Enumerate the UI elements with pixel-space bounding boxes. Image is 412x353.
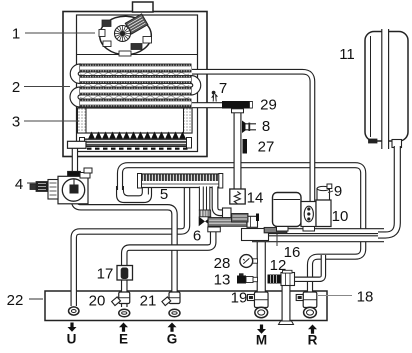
svg-text:M: M (256, 333, 267, 348)
vertical pipe from condensate bar 29 down to diverter (234, 106, 242, 192)
fitting 16 (264, 227, 287, 233)
connection oval M (255, 307, 268, 317)
svg-text:U: U (67, 332, 77, 347)
pipe through expansion vessel (382, 29, 389, 149)
svg-text:16: 16 (284, 244, 301, 261)
leader lines (24, 33, 352, 299)
burner flames (88, 132, 186, 140)
temperature sensor 13 (252, 277, 258, 281)
pressure gauge 28 (252, 259, 258, 263)
right branch elbow from plate HX (215, 187, 224, 213)
boiler outer case (63, 12, 207, 157)
expansion vessel 11 (365, 32, 408, 148)
block fitting (223, 208, 232, 219)
svg-text:3: 3 (12, 114, 20, 131)
coil left bend rows3-4 (70, 87, 80, 107)
connection oval G (169, 309, 180, 317)
collar under bowtie (208, 227, 221, 232)
spindle end nub (256, 214, 259, 222)
svg-text:22: 22 (7, 292, 24, 309)
E cold water inlet pipe (124, 228, 213, 307)
expansion vessel connection pipe (378, 146, 397, 235)
svg-text:5: 5 (160, 186, 168, 203)
air vent 9 (317, 184, 332, 200)
number labels (7, 26, 374, 310)
black bar 29 (222, 101, 253, 109)
drain outlet flare (279, 321, 294, 325)
bottom connection manifold 22 (45, 291, 327, 321)
igniter electrode 7 (212, 91, 218, 101)
svg-text:14: 14 (247, 190, 264, 207)
fan chamber divider (77, 54, 198, 56)
svg-text:R: R (308, 333, 318, 348)
svg-text:29: 29 (260, 97, 277, 114)
svg-text:17: 17 (97, 266, 114, 283)
svg-text:2: 2 (12, 79, 20, 96)
svg-text:8: 8 (262, 118, 270, 135)
burner rail (84, 139, 187, 147)
connection oval U (69, 307, 79, 315)
service valve 21 (169, 292, 180, 304)
svg-text:10: 10 (332, 208, 349, 225)
svg-text:20: 20 (89, 293, 106, 310)
coil left bend rows1-2 (70, 64, 80, 84)
connection letters (67, 332, 318, 348)
svg-text:18: 18 (357, 289, 374, 306)
flow pipe from heat exchanger to pump (192, 72, 312, 203)
coil right bend rows2-3 (191, 76, 201, 96)
junction elbow to M riser (242, 229, 269, 241)
safety valve discharge pipe (282, 283, 291, 322)
connection oval R (304, 307, 317, 317)
service valve 20 (119, 292, 130, 304)
coupler under 14 pipe (232, 214, 249, 223)
svg-text:9: 9 (334, 183, 342, 200)
svg-text:27: 27 (258, 139, 275, 156)
svg-text:13: 13 (214, 272, 231, 289)
service valve 18 (303, 292, 317, 308)
flow direction arrows (68, 323, 77, 332)
flange under bar 29 (232, 109, 244, 113)
sensor 27 (243, 139, 248, 154)
M central heating flow riser (257, 238, 266, 309)
diverter valve bowtie 6 (199, 217, 212, 227)
svg-text:7: 7 (219, 80, 227, 97)
collar above bowtie (199, 210, 210, 217)
gas valve 4 (30, 168, 92, 204)
svg-text:4: 4 (15, 176, 23, 193)
svg-text:1: 1 (12, 26, 20, 43)
svg-text:11: 11 (339, 46, 355, 63)
flow switch 14 (230, 189, 245, 204)
pipe from coil row4 to bar 29 (192, 102, 223, 108)
pump 10 (273, 193, 332, 232)
R central heating return pipe (120, 165, 363, 308)
connection oval E (119, 309, 130, 317)
injector dashes (87, 148, 188, 150)
hook pipe into plate exchanger (117, 186, 152, 203)
U domestic hot water outlet pipe (74, 185, 187, 306)
svg-text:G: G (167, 332, 178, 347)
plate heat exchanger 5 (139, 174, 221, 188)
svg-text:28: 28 (214, 255, 231, 272)
svg-text:21: 21 (140, 293, 157, 310)
fitting 8 (242, 121, 246, 134)
combustion chamber inner box (77, 15, 198, 152)
flue collar (133, 2, 154, 12)
gas pipe from valve to G connection (74, 198, 175, 293)
fan assembly 1 (99, 14, 152, 56)
pump suction manifold pipe (double-walled) (252, 229, 384, 242)
filter 17 (117, 266, 133, 281)
burner box 3 (78, 108, 193, 133)
double-wall pipe plate HX to diverter (199, 187, 209, 211)
safety valve 12 (268, 275, 282, 284)
svg-text:19: 19 (231, 290, 248, 307)
branch to safety valve 12 (293, 255, 323, 279)
service valve 19 (254, 292, 268, 308)
gas feed pipe to burner (72, 145, 78, 173)
svg-text:E: E (119, 332, 128, 347)
spindle bar (208, 218, 247, 227)
svg-text:6: 6 (193, 228, 201, 245)
